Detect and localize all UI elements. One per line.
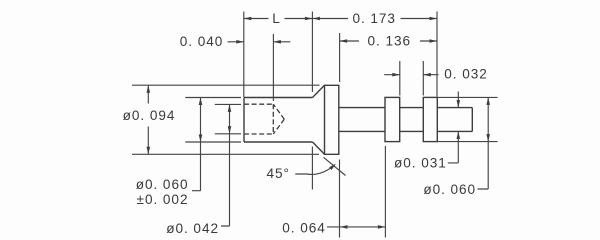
- press-fit ring 2: [423, 97, 437, 141]
- svg-text:ø0. 060: ø0. 060: [136, 177, 189, 192]
- hidden drill point cone: [273, 104, 284, 134]
- 45deg chamfer extension line: [324, 157, 346, 175]
- extension line ring2 right: [436, 12, 438, 97]
- hidden bore dashed lines: [244, 104, 273, 134]
- svg-text:ø0. 060: ø0. 060: [423, 182, 476, 197]
- dimension dia 0.094: [123, 85, 320, 154]
- dimension dia 0.060 rings: [423, 97, 497, 197]
- svg-text:45°: 45°: [266, 166, 289, 181]
- svg-text:ø0. 031: ø0. 031: [394, 156, 447, 171]
- extension line chamfer start: [311, 12, 313, 93]
- extension line barrel left face: [243, 12, 245, 98]
- extension line 45deg reference: [311, 147, 313, 190]
- svg-text:ø0. 094: ø0. 094: [123, 108, 176, 123]
- head flange disc: [325, 85, 339, 154]
- dimension L: [244, 11, 313, 26]
- press-fit ring 1: [385, 97, 400, 141]
- dimension dia 0.031: [394, 92, 460, 171]
- 45deg leader arc: [266, 164, 335, 182]
- barrel body outline: [244, 98, 313, 143]
- extension line bore depth: [272, 34, 274, 101]
- svg-text:0. 032: 0. 032: [444, 66, 488, 81]
- dimension 0.136: [340, 33, 437, 82]
- dimension 0.032: [384, 61, 488, 96]
- svg-text:ø0. 042: ø0. 042: [166, 221, 219, 236]
- dimension dia 0.060 +/-0.002: [136, 98, 241, 207]
- dimension dia 0.042: [166, 104, 241, 236]
- svg-text:L: L: [272, 11, 281, 26]
- dimension 0.040: [180, 34, 291, 49]
- dimension 0.064: [282, 146, 385, 238]
- shank tail: [339, 108, 473, 132]
- svg-text:0. 173: 0. 173: [352, 11, 396, 26]
- svg-text:0. 064: 0. 064: [282, 220, 326, 235]
- head chamfer cone 45deg: [313, 85, 325, 154]
- svg-text:0. 040: 0. 040: [180, 34, 224, 49]
- svg-text:0. 136: 0. 136: [368, 34, 412, 49]
- dimension 0.173: [312, 11, 437, 26]
- svg-text:±0. 002: ±0. 002: [137, 192, 189, 207]
